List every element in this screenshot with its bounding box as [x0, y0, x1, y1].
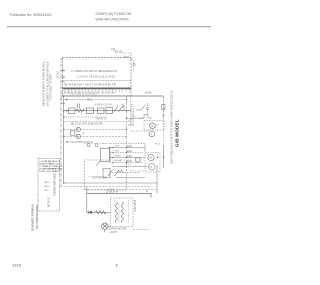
washer switch slashes: [108, 170, 113, 176]
tick row y=117: [64, 116, 108, 118]
indicator light circle row1: [76, 127, 80, 131]
timer box right inner tick: [133, 60, 135, 70]
switch slash 2: [119, 106, 123, 112]
small relay box left of lights: [71, 131, 75, 135]
dashed box around right lights: [144, 121, 164, 131]
svg-text:CONNECTOR CODE: CONNECTOR CODE: [54, 173, 57, 196]
bottom dashed rail y=186.5: [61, 186, 150, 188]
svg-text:BK 1: BK 1: [45, 182, 51, 184]
svg-text:H HEATER V: H HEATER V: [50, 168, 64, 171]
bottom rail y=183: [64, 182, 157, 184]
washer resistor zigzag: [118, 170, 125, 173]
svg-text:W 3: W 3: [45, 190, 50, 192]
dashed wire row y=99.5: [64, 99, 127, 101]
right light circle 3: [148, 154, 154, 160]
svg-text:D DRAIN T: D DRAIN T: [50, 170, 62, 173]
transformer primary coil: [115, 202, 117, 223]
transformer secondary coil: [121, 202, 123, 223]
junction dot row y=99.5: [66, 99, 68, 101]
switch slash 1: [114, 106, 118, 112]
wire row1 through light: [64, 129, 127, 131]
selector switch contact dots: [109, 147, 127, 163]
long horizontal wire y=96: [61, 95, 163, 97]
terminal block TB circles: [115, 51, 121, 53]
svg-text:No.4: No.4: [124, 55, 130, 59]
wire from TB to timer box: [123, 53, 132, 58]
transformer dashed box: [111, 198, 134, 227]
svg-text:L1 TIMER CAM SWITCH SEQUENCE: L1 TIMER CAM SWITCH SEQUENCE M N: [71, 70, 117, 73]
svg-text:SCHEMATIC SHOWN IN: SCHEMATIC SHOWN IN: [32, 204, 35, 231]
mid vertical rail 2: [130, 96, 132, 125]
svg-text:P: P: [150, 165, 152, 169]
dashes near top circles: [84, 143, 104, 145]
svg-text:22 BK 24 W: 22 BK 24 W: [106, 191, 119, 193]
resistor zigzag bottom: [96, 211, 106, 214]
pressure switch slashes extra: [96, 161, 100, 166]
bottom dashed rail y=189.5: [84, 189, 157, 191]
main left vertical rail (dash-dot): [60, 58, 62, 187]
diode: [88, 211, 92, 214]
dashed vertical segment right rail: [163, 118, 165, 145]
notch wire above lights box: [139, 115, 152, 119]
transformer core dashes: [118, 203, 120, 222]
relay/heater component row wire: [64, 110, 131, 112]
indicator light circle row2: [76, 134, 80, 138]
svg-text:MOTOR SW: MOTOR SW: [93, 177, 108, 180]
small circle pair mid: [135, 157, 140, 162]
mid vertical dash-dot rail: [126, 96, 128, 168]
svg-text:B: B: [146, 190, 148, 193]
motor base tick: [104, 229, 106, 232]
svg-text:T-TAN V-VIOLET GY-GRAY: T-TAN V-VIOLET GY-GRAY: [50, 73, 53, 102]
wire through diode: [87, 211, 111, 213]
svg-text:BU 2: BU 2: [45, 186, 51, 188]
rail junction dots: [60, 95, 64, 184]
svg-text:PUMP: PUMP: [108, 189, 115, 191]
right vertical wire from y96: [162, 96, 164, 117]
dashed row y=122.5: [64, 121, 127, 123]
svg-text:GIB MODEL: GIB MODEL: [174, 119, 179, 147]
relay box 4: [106, 108, 113, 114]
svg-text:WDR-MFC/WJCFW03: WDR-MFC/WJCFW03: [96, 17, 129, 21]
header horizontal rule: [7, 26, 211, 28]
svg-text:BK 12 W 14 R 16 BU 18 OR: BK 12 W 14 R 16 BU 18 OR: [71, 123, 103, 126]
svg-text:F FILL GY: F FILL GY: [39, 171, 50, 173]
connector column dashes mid: [131, 104, 133, 126]
inner left vertical rail: [63, 96, 65, 183]
svg-text:1318: 1318: [12, 263, 22, 268]
svg-text:SW BK 12: SW BK 12: [96, 119, 107, 121]
svg-text:Publication No: 5995434343: Publication No: 5995434343: [10, 13, 52, 17]
svg-text:OFF POSITION NOTE: OFF POSITION NOTE: [36, 204, 39, 229]
timer terminal strip dark band line: [63, 87, 131, 89]
junction dots right mid: [163, 156, 165, 158]
junction dot relay row: [66, 110, 68, 112]
relay box 1: [69, 108, 76, 113]
svg-text:GSWF(CW) FGSW1748: GSWF(CW) FGSW1748: [96, 12, 132, 16]
svg-text:NO 2: NO 2: [155, 144, 161, 146]
relay box 3: [98, 108, 105, 113]
right light circle 1: [150, 123, 156, 129]
motor circle with cross: [102, 223, 108, 229]
svg-text:H: H: [132, 59, 134, 61]
svg-text:LS: LS: [128, 164, 131, 166]
timer internal dotted bus line: [63, 80, 131, 82]
right switch slash a: [141, 105, 146, 111]
right light circle 2: [149, 131, 155, 137]
svg-text:6: 6: [116, 263, 119, 268]
dashed box right mid: [145, 153, 160, 173]
svg-text:BK-BLACK W-WHITE R-RED BU-BLU: BK-BLACK W-WHITE R-RED BU-BLU: [42, 62, 46, 106]
timer box outline (dashed): [63, 58, 132, 96]
relay box 2: [87, 108, 94, 113]
wire row2 through light: [64, 135, 127, 137]
svg-text:GN-GREEN Y-YELLOW OR-ORANGE: GN-GREEN Y-YELLOW OR-ORANGE: [46, 61, 50, 106]
small circles top of washer box: [87, 144, 90, 147]
transformer inner dashes right: [128, 200, 130, 222]
water valve solenoid box: [103, 169, 110, 178]
svg-text:18 BU: 18 BU: [115, 156, 121, 158]
svg-text:TB 2: TB 2: [87, 99, 93, 102]
lower mid dashes y171: [130, 170, 144, 172]
left vertical wire to motor: [86, 187, 88, 213]
lower mid dashes y176: [88, 176, 104, 178]
wire y=118.5 to lights box: [127, 118, 144, 120]
selector switch block rows: [103, 144, 147, 178]
vertical resistor right of switches: [122, 104, 125, 110]
svg-text:A B C D E F G H J K L M N P R: A B C D E F G H J K L M N P R S T U V W …: [64, 87, 116, 91]
svg-text:1 2 3 4 5 6 7 8 9 10 11 12 13: 1 2 3 4 5 6 7 8 9 10 11 12 13 14 15: [76, 75, 115, 78]
washer section dashed box: [85, 160, 127, 190]
bottom solid rail y=193.5: [87, 194, 152, 198]
right vertical 157: [156, 165, 158, 193]
svg-text:H: H: [77, 136, 79, 139]
parts legend box: [38, 159, 60, 212]
svg-text:12: 12: [82, 133, 85, 135]
svg-text:120V 60HZ: 120V 60HZ: [134, 199, 137, 212]
svg-text:24: 24: [156, 125, 159, 127]
svg-text:14 BK: 14 BK: [145, 91, 152, 95]
svg-text:TIMER SEQUENCE CHART FOR MODEL: TIMER SEQUENCE CHART FOR MODEL GSWF SERI…: [171, 90, 174, 164]
motor to transformer wire: [108, 225, 111, 227]
terminal strip comb ticks: [65, 90, 130, 93]
left box edge wire stubs: [61, 71, 65, 104]
svg-text:1/3 HP: 1/3 HP: [110, 231, 118, 234]
capacitor symbol: [78, 104, 80, 109]
svg-text:BK W R BU OR Y GN V T GY BK W: BK W R BU OR Y GN V T GY BK W R BU OR: [65, 83, 116, 86]
svg-text:L: L: [151, 132, 153, 136]
svg-text:M: M: [151, 124, 153, 128]
wire to right lights: [131, 130, 149, 132]
svg-text:6 OR 8 Y 10 GN: 6 OR 8 Y 10 GN: [95, 105, 112, 107]
right block small box: [101, 149, 110, 162]
svg-text:12 BU: 12 BU: [57, 71, 60, 78]
right light circle 4: [149, 164, 155, 170]
resistor zigzag 1: [76, 109, 84, 112]
svg-text:16 R: 16 R: [115, 151, 120, 153]
svg-text:PLUG P2 BK W R: PLUG P2 BK W R: [133, 108, 135, 126]
right switch slash b: [136, 109, 141, 111]
mid rail junction dots: [126, 99, 127, 130]
svg-text:M: M: [149, 156, 152, 160]
connector arrow on right: [146, 103, 149, 115]
dashes right of motor: [133, 229, 150, 231]
svg-text:TB: TB: [111, 48, 115, 52]
svg-text:NOTE 1A: NOTE 1A: [48, 197, 51, 207]
svg-text:P: P: [77, 129, 79, 132]
svg-text:20 OR: 20 OR: [115, 161, 122, 163]
vertical wire right mid: [163, 145, 165, 168]
